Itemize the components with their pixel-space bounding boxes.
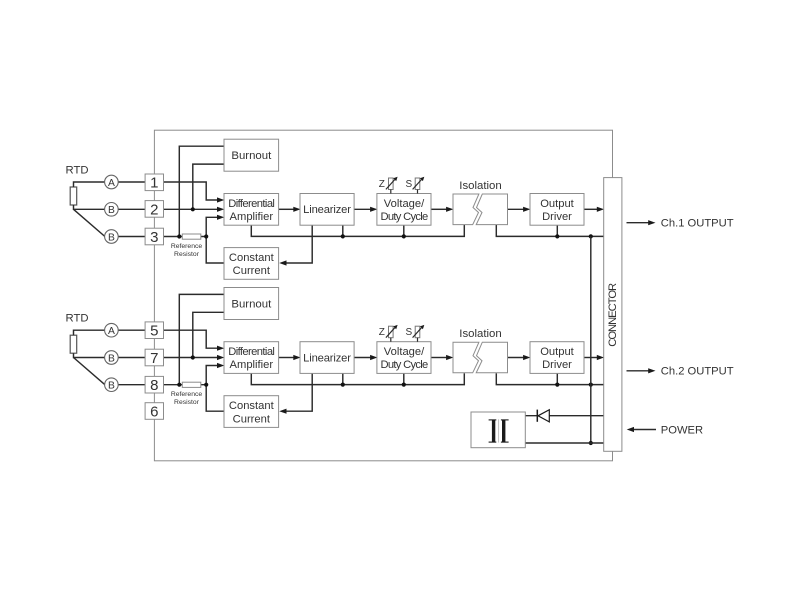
span trimmer pot ch1 <box>415 178 420 190</box>
wire: input common line ch2 <box>251 373 464 384</box>
svg-text:RTD: RTD <box>66 313 89 325</box>
wire label circle B ch2 <box>105 351 119 365</box>
wire: linearizer2 to constant current2 feedback <box>286 373 312 411</box>
ch1 output arrow and label <box>627 222 649 224</box>
svg-text:7: 7 <box>150 350 158 367</box>
wire: output common line ch1 (isolation to connector) <box>496 225 604 236</box>
wire RTD bottom to lead B ch1 <box>74 205 105 209</box>
svg-text:Burnout: Burnout <box>231 299 272 311</box>
svg-text:Isolation: Isolation <box>459 180 501 192</box>
junction dc return on power line <box>589 441 593 445</box>
svg-text:5: 5 <box>150 323 158 340</box>
terminal 8 <box>145 376 163 393</box>
isolation barrier ch2 right part <box>476 342 507 373</box>
svg-text:Burnout: Burnout <box>231 150 272 162</box>
wire label circle B ch1 <box>105 203 119 217</box>
wire: linearizer2 output to vdc2 <box>354 357 371 359</box>
wire lead A to terminal 1 <box>118 181 146 183</box>
svg-text:Differential: Differential <box>228 198 274 210</box>
reference resistor ch2 <box>182 382 201 387</box>
power supply transformer box <box>471 412 525 448</box>
svg-text:Linearizer: Linearizer <box>303 204 351 216</box>
wire: diff amp2 output to linearizer2 <box>279 357 294 359</box>
svg-text:A: A <box>108 326 115 337</box>
diode D1 <box>538 410 549 422</box>
wire RTD top to lead A ch1 <box>74 182 105 187</box>
wire: burnout line B down to terminal2 line <box>193 164 224 209</box>
wire label circle A ch1 <box>105 175 119 189</box>
wire: burnout line A down to ref line <box>179 146 224 236</box>
wire: terminal3 / reference resistor line <box>164 236 206 238</box>
wire: output driver2 to connector ch2 <box>584 357 597 359</box>
terminal 3 <box>145 228 163 245</box>
zero trimmer pot ch1 <box>389 178 394 190</box>
wire: diode line transformer to connector <box>525 415 604 417</box>
svg-text:Resistor: Resistor <box>174 399 200 406</box>
svg-text:Duty Cycle: Duty Cycle <box>380 211 428 223</box>
wire: power bottom line transformer to connector <box>525 442 604 444</box>
transformer windings symbol <box>489 419 509 442</box>
terminal 2 <box>145 201 163 218</box>
outer border <box>154 130 612 461</box>
svg-text:2: 2 <box>150 201 158 218</box>
svg-text:Constant: Constant <box>229 252 275 264</box>
junction output driver stub on common ch2 <box>555 383 559 387</box>
junction linearizer stub on common ch2 <box>341 383 345 387</box>
junction reference line to input3 ch2 <box>204 383 208 387</box>
voltage/duty cycle ch2 <box>377 342 431 374</box>
wire: output driver2 bottom stub <box>556 373 558 384</box>
wire: terminal1 to diff amp input 1 <box>164 182 218 200</box>
svg-text:B: B <box>108 381 115 392</box>
wire: vertical x206 ch2 to diff amp input3 and constant current <box>206 366 224 412</box>
wire lead B to terminal 2 <box>118 208 146 210</box>
svg-text:POWER: POWER <box>661 424 703 436</box>
svg-text:Linearizer: Linearizer <box>303 352 351 364</box>
svg-text:S: S <box>406 327 413 338</box>
RTD sensor resistor ch1 <box>70 187 77 205</box>
wire: burnout2 line A down to ref line ch2 <box>179 294 224 384</box>
junction output driver stub on common ch1 <box>555 234 559 238</box>
junction dc return on common ch2 <box>589 383 593 387</box>
wire label circle A ch2 <box>105 323 119 337</box>
wire: linearizer output to voltage/duty cycle <box>354 208 371 210</box>
voltage/duty cycle ch1 <box>377 194 431 226</box>
wire: burnout2 line B down to terminal7 line <box>193 312 224 357</box>
wire RTD diagonal to lead B2 ch2 <box>74 358 105 385</box>
svg-text:Voltage/: Voltage/ <box>384 346 425 358</box>
svg-text:Isolation: Isolation <box>459 328 501 340</box>
svg-text:A: A <box>108 178 115 189</box>
svg-text:S: S <box>406 179 413 190</box>
svg-text:B: B <box>108 232 115 243</box>
junction burnout-B on terminal2 wire ch1 <box>191 207 195 211</box>
junction reference line to input3 ch1 <box>204 234 208 238</box>
wire: isolation2 output to output driver2 <box>508 357 524 359</box>
svg-text:Differential: Differential <box>228 346 274 358</box>
svg-text:Driver: Driver <box>542 359 572 371</box>
junction burnout-A on reference line ch1 <box>177 234 181 238</box>
svg-text:B: B <box>108 353 115 364</box>
output driver ch1 <box>530 194 584 226</box>
svg-text:CONNECTOR: CONNECTOR <box>607 283 619 347</box>
svg-text:Ch.1 OUTPUT: Ch.1 OUTPUT <box>661 218 734 230</box>
wire lead B2 to terminal 3 <box>118 236 146 238</box>
connector block <box>604 178 622 452</box>
wire: linearizer2 bottom stub <box>342 373 344 384</box>
wire: terminal2 to diff amp input 2 <box>164 208 218 210</box>
linearizer ch2 <box>300 342 354 374</box>
svg-text:8: 8 <box>150 377 158 394</box>
svg-text:Z: Z <box>379 327 385 338</box>
terminal 1 <box>145 174 163 191</box>
junction burnout-B on terminal7 wire ch2 <box>191 355 195 359</box>
svg-text:Output: Output <box>540 198 574 210</box>
wire: output driver bottom stub ch1 <box>556 225 558 236</box>
terminal 6 <box>145 403 163 420</box>
burnout box ch2 <box>224 288 279 320</box>
wire: input common line ch1 (diff amp bottom to isolation) <box>251 225 464 236</box>
wire lead B2 to terminal 8 <box>118 384 146 386</box>
wire: terminal8 / reference resistor line ch2 <box>164 384 206 386</box>
svg-text:Duty Cycle: Duty Cycle <box>380 359 428 371</box>
wire RTD diagonal to lead B2 ch1 <box>74 209 105 236</box>
zero trimmer pot ch2 <box>389 326 394 338</box>
svg-text:Constant: Constant <box>229 400 275 412</box>
wire: isolation output to output driver <box>508 208 524 210</box>
wire: output common line ch2 <box>496 373 604 384</box>
constant current ch1 <box>224 248 279 280</box>
junction vdc stub on common ch1 <box>402 234 406 238</box>
wire: terminal7 to diff amp2 input 2 <box>164 357 218 359</box>
svg-text:Voltage/: Voltage/ <box>384 198 425 210</box>
svg-text:Current: Current <box>233 265 271 277</box>
wire: dc common return vertical <box>590 236 592 443</box>
svg-text:Resistor: Resistor <box>174 251 200 258</box>
svg-text:3: 3 <box>150 229 158 246</box>
svg-text:6: 6 <box>150 403 158 420</box>
svg-text:Reference: Reference <box>171 391 203 398</box>
junction dc return on common ch1 <box>589 234 593 238</box>
svg-text:Amplifier: Amplifier <box>230 359 274 371</box>
svg-text:Ch.2 OUTPUT: Ch.2 OUTPUT <box>661 366 734 378</box>
junction vdc stub on common ch2 <box>402 383 406 387</box>
wire: vdc2 output to isolation2 <box>431 357 447 359</box>
svg-text:Driver: Driver <box>542 211 572 223</box>
junction burnout-A on reference line ch2 <box>177 383 181 387</box>
wire lead B to terminal 7 <box>118 357 146 359</box>
wire: linearizer bottom stub to common <box>342 225 344 236</box>
svg-text:1: 1 <box>150 175 158 192</box>
svg-text:B: B <box>108 205 115 216</box>
isolation barrier ch1 right part <box>476 194 507 225</box>
svg-text:Current: Current <box>233 413 271 425</box>
svg-text:RTD: RTD <box>66 165 89 177</box>
junction linearizer stub on common ch1 <box>341 234 345 238</box>
power arrow and label <box>634 429 657 431</box>
isolation barrier ch2 left part <box>453 342 479 373</box>
wire RTD bottom to lead B ch2 <box>74 353 105 357</box>
RTD sensor resistor ch2 <box>70 335 77 353</box>
wire: vdc bottom stub to common <box>403 225 405 236</box>
output driver ch2 <box>530 342 584 374</box>
wire: linearizer to constant current feedback <box>286 225 312 263</box>
wire: voltage/duty cycle output to isolation <box>431 208 447 210</box>
terminal 5 <box>145 322 163 339</box>
svg-text:Z: Z <box>379 179 385 190</box>
ch2 output arrow and label <box>627 370 649 372</box>
svg-text:Amplifier: Amplifier <box>230 211 274 223</box>
svg-text:Reference: Reference <box>171 243 203 250</box>
wire label circle B2 ch2 <box>105 378 119 392</box>
wire: output driver to connector ch1 <box>584 208 597 210</box>
svg-text:Output: Output <box>540 346 574 358</box>
wire: vertical x206 ref line to diff amp input3 and to constant current <box>206 217 224 263</box>
span trimmer pot ch2 <box>415 326 420 338</box>
differential amplifier ch1 <box>224 194 279 226</box>
wire label circle B2 ch1 <box>105 230 119 244</box>
wire lead A to terminal 5 <box>118 329 146 331</box>
wire: vdc2 bottom stub <box>403 373 405 384</box>
terminal 7 <box>145 349 163 366</box>
isolation barrier ch1 left part <box>453 194 479 225</box>
wire: diff amp output to linearizer <box>279 208 294 210</box>
wire: terminal5 to diff amp2 input 1 <box>164 330 218 348</box>
burnout box ch1 <box>224 139 279 171</box>
wire RTD top to lead A ch2 <box>74 330 105 335</box>
reference resistor ch1 <box>182 234 201 239</box>
linearizer ch1 <box>300 194 354 226</box>
constant current ch2 <box>224 396 279 428</box>
differential amplifier ch2 <box>224 342 279 374</box>
